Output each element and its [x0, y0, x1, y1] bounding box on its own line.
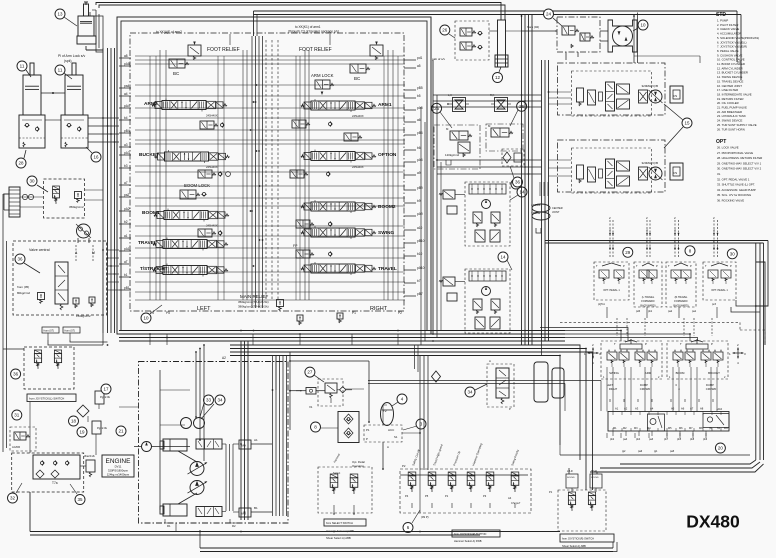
svg-text:11: 11 [58, 68, 63, 73]
filter unit below [502, 149, 524, 166]
label 21 [116, 426, 126, 436]
travel motor assembly lower inner box [572, 148, 652, 193]
travel unit top entry [634, 55, 700, 57]
label 4 [397, 394, 407, 404]
left edge drop to bottom [2, 194, 4, 452]
svg-text:124kg.m/1400rpm: 124kg.m/1400rpm [107, 473, 130, 477]
svg-text:(L.TRAVEL: (L.TRAVEL [642, 296, 655, 299]
svg-text:OPT. PEDAL 1: OPT. PEDAL 1 [603, 289, 620, 292]
upper relief pair [577, 88, 584, 102]
main pump 1 [190, 462, 204, 476]
svg-text:JOINT: JOINT [552, 210, 560, 214]
hourglass valve right [495, 98, 508, 112]
svg-text:P3: P3 [483, 494, 487, 498]
svg-text:10: 10 [640, 23, 646, 28]
svg-text:34: 34 [467, 390, 473, 395]
svg-text:MAIN RELIEF: MAIN RELIEF [240, 294, 269, 299]
from joystick L switch box [27, 394, 76, 402]
svg-text:a3: a3 [124, 143, 128, 147]
joystick L solenoid block [24, 347, 74, 389]
option pilot cluster [290, 170, 304, 178]
boom cylinder crossover pipe [41, 92, 65, 94]
pedal valve unit right travel [666, 262, 696, 307]
svg-text:Hammer Select A) FWB: Hammer Select A) FWB [454, 539, 482, 543]
svg-text:11: 11 [20, 64, 25, 69]
svg-text:A2: A2 [222, 356, 226, 360]
label 10 bank [141, 313, 151, 323]
arm1 pilot cluster [292, 120, 306, 128]
svg-text:pd3: pd3 [636, 310, 641, 313]
svg-text:a6: a6 [417, 118, 421, 122]
foot relief valve right [370, 45, 383, 56]
svg-text:CENTER: CENTER [552, 206, 563, 210]
svg-text:DrC: DrC [724, 427, 729, 430]
joystick group to manifold [609, 399, 611, 402]
pump regulator assembly lower box [465, 269, 510, 333]
lower pump circle [482, 287, 491, 296]
svg-text:19: 19 [79, 430, 85, 435]
svg-text:10: 10 [143, 316, 149, 321]
accumulator manifold block [12, 453, 84, 492]
svg-text:from (05): from (05) [17, 285, 29, 289]
svg-text:MA: MA [242, 444, 247, 448]
svg-text:14: 14 [500, 255, 506, 260]
svg-text:pa2: pa2 [668, 310, 673, 313]
BOOM pilot valves [673, 352, 683, 360]
svg-text:BOOM LOCK: BOOM LOCK [184, 183, 210, 188]
svg-text:b2: b2 [124, 220, 128, 224]
svg-text:M8: M8 [699, 427, 703, 430]
svg-text:30: 30 [29, 179, 35, 184]
svg-text:M5: M5 [668, 427, 672, 430]
svg-text:Hammer Select A) FBB: Hammer Select A) FBB [326, 529, 354, 533]
top wire bundle to travel motors [254, 10, 738, 12]
svg-text:aT: aT [124, 260, 128, 264]
svg-text:a9: a9 [417, 171, 421, 175]
svg-text:b9: b9 [417, 199, 421, 203]
label 36 [11, 369, 21, 379]
shear solenoid block [558, 490, 606, 531]
svg-text:12: 12 [495, 75, 501, 80]
junction dots in bank [253, 101, 255, 103]
label 6 [403, 523, 413, 533]
ACC junction box [364, 425, 402, 442]
lower relief pair [577, 165, 584, 179]
svg-text:DUMP: DUMP [706, 383, 714, 387]
svg-text:P1: P1 [445, 494, 449, 498]
label 30 pedal [727, 249, 737, 259]
svg-text:b1: b1 [124, 273, 128, 277]
svg-text:30. ONE/TWO-WAY SELECT V/V 2: 30. ONE/TWO-WAY SELECT V/V 2 [717, 167, 762, 171]
svg-text:36: 36 [515, 180, 521, 185]
svg-text:245H40X: 245H40X [352, 114, 364, 118]
svg-text:pb2: pb2 [610, 438, 615, 441]
verticals from bank right ports [432, 60, 434, 334]
svg-text:80kg/cm2: 80kg/cm2 [17, 291, 30, 295]
wires manifold bottom bundle [560, 454, 750, 456]
svg-text:TRAVEL: TRAVEL [378, 266, 397, 272]
svg-text:M1: M1 [613, 427, 617, 430]
shuttle plates [534, 362, 548, 402]
lower top ports strip [469, 271, 506, 281]
svg-text:29. ONE/TWO-WAY SELECT V/V 1: 29. ONE/TWO-WAY SELECT V/V 1 [717, 161, 762, 165]
swing cushion valve block [44, 179, 85, 218]
joystick valve unit BOOM/BUCKET [667, 341, 728, 379]
svg-text:Valve central: Valve central [29, 248, 50, 252]
svg-text:a7: a7 [124, 181, 128, 185]
svg-text:BACKWARD): BACKWARD) [640, 304, 655, 307]
valve bank right port labels [404, 59, 416, 61]
svg-text:OPTION: OPTION [378, 152, 397, 158]
svg-text:Shear Select A) ABB: Shear Select A) ABB [326, 536, 351, 540]
svg-text:(09 P): (09 P) [421, 515, 429, 519]
svg-text:pB1: pB1 [124, 286, 130, 290]
from joystick R button box [452, 530, 500, 537]
main control valve inner dash-dot boundary [130, 33, 404, 311]
tank symbol below joint [536, 228, 541, 233]
boom cylinder right [65, 75, 83, 115]
bank internal horizontal wires [135, 55, 405, 57]
swing unit pipes [489, 30, 498, 32]
svg-text:35. SOL. V/V for ROCKING: 35. SOL. V/V for ROCKING [717, 193, 751, 197]
shear block feed drops [568, 468, 570, 474]
upper relief valves [473, 212, 482, 223]
svg-text:SOLND: SOLND [567, 477, 575, 479]
svg-text:A3: A3 [635, 407, 639, 411]
svg-text:X1: X1 [309, 405, 313, 409]
svg-text:35: 35 [77, 497, 83, 502]
lower horizontal bundle with drops [230, 345, 580, 460]
svg-text:pB7: pB7 [417, 292, 423, 296]
swing motor [77, 224, 91, 238]
svg-text:M6: M6 [679, 427, 683, 430]
svg-text:FORWARD/: FORWARD/ [674, 300, 688, 303]
svg-text:to XK(K1) of arm1: to XK(K1) of arm1 [295, 25, 321, 29]
svg-text:b6: b6 [417, 146, 421, 150]
svg-text:I/S: I/S [674, 171, 678, 175]
svg-text:B1: B1 [254, 506, 258, 510]
upper lower valve pair [475, 230, 485, 242]
svg-text:ACC: ACC [388, 428, 395, 432]
solenoid manifold dashed box [400, 469, 531, 513]
boom2 spool valve [311, 202, 355, 211]
svg-text:P: P [711, 342, 713, 346]
svg-text:(spk): (spk) [64, 59, 72, 63]
svg-text:32. OPT. PEDAL VALVE 1: 32. OPT. PEDAL VALVE 1 [717, 177, 750, 181]
right side vertical feed bundle [541, 60, 543, 196]
filter diamond mid [432, 371, 441, 382]
svg-text:T2: T2 [383, 409, 387, 413]
pilot manifold block [608, 412, 729, 432]
pump swash links [178, 451, 197, 462]
svg-text:pb5: pb5 [677, 438, 682, 441]
svg-text:C/V pu7: C/V pu7 [511, 501, 521, 505]
swing motor ports [77, 238, 79, 243]
svg-text:(through C3 of breaker package: (through C3 of breaker package s/v) [288, 30, 339, 34]
svg-text:LEFT: LEFT [607, 383, 614, 387]
svg-text:A8: A8 [700, 407, 704, 411]
joystick TP feed drops [540, 331, 621, 342]
label 20 [715, 443, 725, 453]
travel motor assembly upper inner box [572, 71, 652, 116]
svg-text:T: T [680, 342, 682, 346]
svg-text:OPT: OPT [716, 139, 726, 145]
SWING handle bridge [620, 344, 642, 349]
svg-text:27: 27 [307, 370, 313, 375]
travel unit feed stubs [549, 91, 572, 93]
label 14 lower [498, 252, 508, 262]
svg-text:350kg/cm2(T/H=25.5k): 350kg/cm2(T/H=25.5k) [238, 300, 269, 304]
boom cylinder left [23, 75, 41, 115]
svg-text:P: P [656, 264, 658, 268]
label 11 left [17, 61, 27, 71]
svg-text:pa3: pa3 [649, 438, 654, 441]
label 36 left [15, 254, 25, 264]
svg-text:245H40X: 245H40X [352, 165, 364, 169]
svg-text:P1: P1 [352, 311, 356, 315]
svg-text:32: 32 [10, 496, 16, 501]
label 30 [27, 176, 37, 186]
label 29 [623, 247, 633, 257]
svg-text:Select: Select [333, 471, 340, 475]
filter diamond [77, 405, 89, 417]
svg-text:A4: A4 [508, 496, 512, 500]
svg-text:pB5: pB5 [417, 86, 423, 90]
svg-text:31.: 31. [717, 172, 721, 176]
lower relief valves [473, 299, 482, 310]
upper gearbox [670, 86, 683, 103]
bank bottom horizontal bundle [119, 330, 565, 332]
svg-text:320MH(V)/B: 320MH(V)/B [642, 84, 659, 88]
svg-text:a8: a8 [124, 54, 128, 58]
svg-text:pQ5 A: pQ5 A [598, 303, 605, 306]
svg-text:T/STRAIGHT: T/STRAIGHT [140, 266, 168, 271]
relief 3bar [86, 460, 95, 472]
svg-text:P5: P5 [425, 494, 429, 498]
right edge top connections [736, 300, 756, 306]
hourglass valve left [453, 98, 466, 112]
very top wire pair [96, 3, 501, 21]
svg-text:P: P [509, 407, 511, 411]
svg-text:34. ACCESSUM. GEAR PUMP: 34. ACCESSUM. GEAR PUMP [717, 188, 756, 192]
svg-text:A2: A2 [624, 407, 628, 411]
svg-text:a1: a1 [124, 234, 128, 238]
joystick riser dashes [616, 318, 618, 336]
label 31 valve [12, 410, 22, 420]
svg-text:18: 18 [71, 419, 77, 424]
pilot lines from notes [229, 34, 231, 45]
junction dots main [253, 330, 255, 332]
svg-text:pa4: pa4 [623, 438, 628, 441]
svg-text:A6: A6 [681, 407, 685, 411]
svg-text:150kg/cm2: 150kg/cm2 [76, 314, 91, 318]
bank bottom port drops [149, 334, 151, 345]
solenoid row top rail [400, 474, 528, 476]
center dash vertical lines [265, 40, 267, 300]
pressure source Pg2 [92, 421, 101, 434]
verticals bank to pumps [541, 196, 543, 341]
svg-text:pc3: pc3 [712, 303, 717, 306]
option spool valve [311, 152, 355, 161]
svg-text:P2: P2 [398, 311, 402, 315]
BOOM handle bridge [686, 344, 708, 349]
travel straight spool valve [163, 266, 207, 275]
svg-text:to XK(A)E of arm2: to XK(A)E of arm2 [156, 30, 182, 34]
svg-text:3bar/0.2k: 3bar/0.2k [84, 454, 96, 458]
label 8 pedal [685, 246, 695, 256]
svg-text:FOOT RELIEF: FOOT RELIEF [299, 47, 332, 53]
label 11 right [55, 65, 65, 75]
joystick to manifold wires [606, 367, 608, 412]
label 13 [55, 9, 65, 19]
BC valve left [169, 59, 185, 68]
vertical bundle lower center [419, 356, 421, 471]
bank left bottom verticals down [240, 341, 242, 520]
solenoid valves row [408, 472, 416, 476]
LH-R solenoid top boxes [566, 474, 578, 488]
cylinder to bank pipes [88, 117, 119, 119]
LS valve block right [486, 124, 523, 151]
MA port box top [239, 440, 251, 449]
svg-text:34: 34 [217, 398, 223, 403]
pump case drain stubs [165, 519, 172, 523]
pump discharge lines [251, 443, 272, 445]
svg-text:A1: A1 [254, 438, 258, 442]
label 32 [8, 493, 18, 503]
svg-text:pa5: pa5 [670, 450, 675, 453]
accumulator cylinder 12 [498, 20, 506, 67]
main control valve assembly outer box [117, 17, 431, 334]
svg-text:M2: M2 [623, 427, 627, 430]
svg-text:a4: a4 [124, 92, 128, 96]
svg-text:P4: P4 [405, 494, 409, 498]
pilot verticals down to engine [272, 356, 274, 517]
svg-text:a5: a5 [417, 64, 421, 68]
manifold inner component right [703, 414, 729, 428]
valve 27 pressure reducing [305, 367, 315, 377]
svg-text:M7: M7 [689, 427, 693, 430]
svg-text:AC/DR: AC/DR [12, 445, 20, 449]
svg-text:A4: A4 [650, 407, 654, 411]
svg-text:A7: A7 [690, 407, 694, 411]
svg-text:DX480: DX480 [686, 512, 740, 532]
svg-text:120kg/cm2: 120kg/cm2 [445, 153, 460, 157]
bucket spool valve [165, 152, 209, 161]
lower pilot boxes [617, 161, 630, 171]
BC valve right [350, 64, 366, 73]
arm cylinder [78, 16, 94, 36]
upper counterbalance valve [606, 82, 615, 111]
svg-text:pA2: pA2 [124, 207, 130, 211]
MB port box bottom [239, 508, 251, 517]
svg-text:7.55392: 7.55392 [531, 211, 541, 215]
svg-text:from JOYSTICK(R) SWITCH: from JOYSTICK(R) SWITCH [562, 538, 594, 541]
svg-text:15: 15 [684, 121, 690, 126]
swing spool valve [311, 228, 355, 237]
svg-text:14: 14 [519, 190, 525, 195]
svg-text:20: 20 [718, 446, 724, 451]
travel left spool valve [163, 240, 207, 249]
label 35 [75, 495, 85, 505]
svg-text:T: T [614, 342, 616, 346]
hammer select pressure switch block [318, 467, 372, 513]
regulator valve top [196, 439, 222, 449]
svg-text:BOOM: BOOM [676, 371, 685, 375]
svg-text:A: A [489, 359, 491, 363]
svg-text:pd1: pd1 [417, 56, 423, 60]
upper left attachment valves [443, 190, 455, 199]
bottom horizontal bundle [30, 531, 560, 533]
swing valve central box [13, 241, 107, 315]
svg-text:(R.TRAVEL: (R.TRAVEL [675, 296, 688, 299]
svg-text:Pg=2.0k: Pg=2.0k [100, 395, 111, 399]
pedal valve unit opt pedal left [594, 262, 629, 300]
svg-text:P1: P1 [549, 490, 553, 494]
svg-text:245H40X: 245H40X [206, 114, 218, 118]
svg-text:pB4: pB4 [124, 129, 130, 133]
svg-text:P: P [645, 342, 647, 346]
pressure source Pg1 [95, 391, 104, 404]
label 28 [16, 158, 26, 168]
joystick cross arrows right [733, 352, 743, 354]
svg-text:pA6: pA6 [417, 158, 423, 162]
lower speed change valve [639, 167, 648, 180]
svg-text:Opt. Pedal: Opt. Pedal [352, 460, 365, 464]
label 14 upper [517, 187, 527, 197]
svg-text:A1: A1 [615, 407, 619, 411]
svg-text:RIGHT: RIGHT [370, 306, 388, 312]
svg-text:from SELECT SWITCH: from SELECT SWITCH [326, 521, 353, 525]
verticals from top bundle to units [633, 16, 635, 63]
svg-text:24: 24 [546, 12, 552, 17]
pilot connector segments [98, 404, 100, 409]
regulator feedback verticals [225, 444, 227, 511]
svg-text:Shear Select A) ABB: Shear Select A) ABB [562, 544, 586, 548]
regulator feed verticals [539, 182, 541, 196]
svg-text:a10: a10 [417, 226, 423, 230]
swing reduction motor [613, 26, 633, 46]
verticals to pedal units [606, 307, 608, 318]
svg-text:T7a: T7a [52, 481, 58, 485]
swing unit drain stubs [565, 52, 567, 60]
travel motor assembly lower outer box [558, 140, 666, 192]
svg-text:OPT. PEDAL 1: OPT. PEDAL 1 [711, 289, 728, 292]
valve 27 feed lines [290, 390, 306, 392]
proportional valve 34 [487, 364, 514, 407]
svg-text:BC: BC [354, 76, 361, 81]
right mid horizontal bundle [545, 240, 768, 242]
foot relief valve left [188, 45, 201, 56]
check valve block 8 [311, 422, 321, 432]
engine box to bank drop lines [119, 406, 139, 408]
left block to bank pipes [107, 249, 120, 251]
regulator valve bottom [196, 507, 222, 517]
bundle bank-bottom to regulators [541, 341, 543, 356]
svg-text:P: P [623, 264, 625, 268]
joins around valve27 and acc [275, 356, 277, 391]
svg-text:30: 30 [730, 251, 736, 256]
pedal valve unit left travel [634, 262, 662, 307]
upper motor [649, 90, 662, 103]
svg-text:LH-R: LH-R [567, 470, 573, 473]
svg-text:FORWARD/: FORWARD/ [641, 300, 655, 303]
svg-text:R2: R2 [232, 524, 236, 528]
svg-text:36. ROCKING VALVE: 36. ROCKING VALVE [717, 199, 744, 203]
label 26 right [517, 101, 527, 111]
svg-text:from JOYSTICK(R) BUTTON: from JOYSTICK(R) BUTTON [454, 533, 487, 536]
svg-text:BOOM1: BOOM1 [142, 210, 160, 216]
svg-text:b4: b4 [124, 116, 128, 120]
